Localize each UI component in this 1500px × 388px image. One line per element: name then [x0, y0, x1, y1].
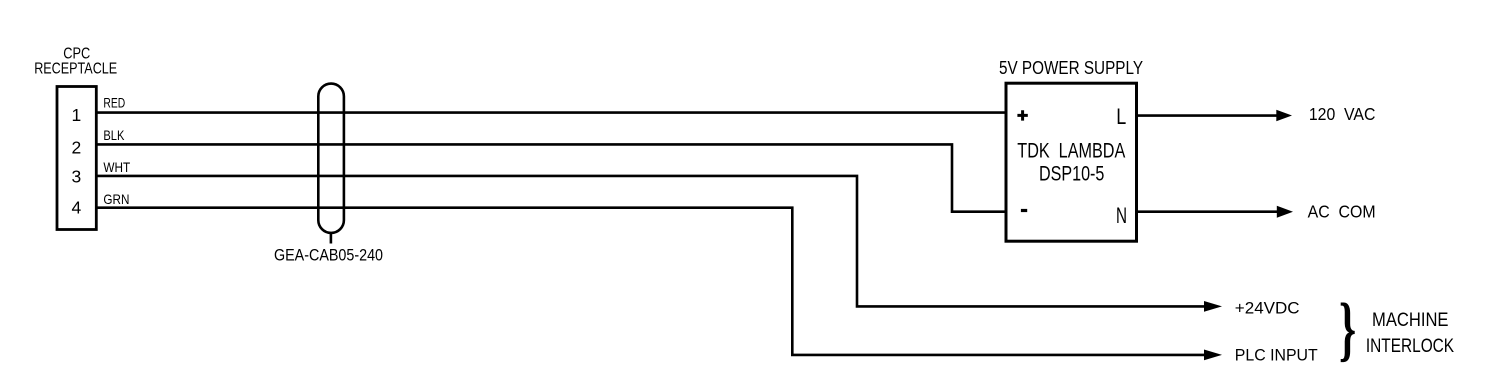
svg-text:RED: RED — [103, 96, 125, 111]
terminal N — [1116, 203, 1127, 228]
value DSP10-5 — [1039, 161, 1104, 185]
svg-text:DSP10-5: DSP10-5 — [1039, 161, 1104, 185]
pin 4 — [72, 198, 82, 218]
node PLC INPUT — [1235, 346, 1318, 365]
pin 1 — [72, 105, 82, 125]
svg-text:WHT: WHT — [103, 160, 130, 175]
svg-text:}: } — [1339, 288, 1356, 368]
label MACHINE — [1372, 310, 1449, 331]
node +24VDC — [1235, 298, 1300, 317]
svg-text:3: 3 — [72, 167, 82, 187]
label BLK — [103, 128, 124, 143]
svg-text:INTERLOCK: INTERLOCK — [1366, 336, 1454, 357]
label 5V POWER SUPPLY — [999, 58, 1143, 78]
svg-text:AC COM: AC COM — [1308, 201, 1376, 221]
arrowhead +24VDC — [1204, 301, 1222, 312]
wire WHT: pin 3 to +24VDC — [97, 176, 1206, 307]
label WHT — [103, 160, 130, 175]
svg-text:4: 4 — [72, 198, 82, 218]
svg-text:L: L — [1116, 104, 1126, 129]
connector J1 CPC receptacle body — [57, 87, 96, 230]
brace machine interlock — [1339, 288, 1356, 368]
svg-text:TDK LAMBDA: TDK LAMBDA — [1017, 139, 1125, 163]
label GEA-CAB05-240 — [274, 247, 383, 265]
wire RED: pin 1 to power supply + terminal — [97, 111, 1007, 114]
arrowhead PLC INPUT — [1204, 350, 1222, 361]
svg-text:5V POWER SUPPLY: 5V POWER SUPPLY — [999, 58, 1143, 78]
wire L to 120 VAC — [1137, 110, 1293, 121]
svg-text:GEA-CAB05-240: GEA-CAB05-240 — [274, 247, 383, 265]
label RECEPTACLE — [34, 61, 117, 78]
pin 3 — [72, 167, 82, 187]
wire GRN: pin 4 to PLC INPUT — [97, 208, 1206, 355]
label INTERLOCK — [1366, 336, 1454, 357]
svg-text:2: 2 — [72, 138, 82, 158]
node AC COM — [1308, 201, 1376, 221]
svg-text:N: N — [1116, 203, 1127, 228]
wire N to AC COM — [1137, 206, 1294, 218]
pin 2 — [72, 138, 82, 158]
svg-text:+24VDC: +24VDC — [1235, 298, 1300, 317]
wire BLK: pin 2 to power supply - terminal — [97, 144, 1007, 211]
terminal + — [1017, 110, 1027, 120]
svg-text:1: 1 — [72, 105, 82, 125]
svg-text:MACHINE: MACHINE — [1372, 310, 1449, 331]
svg-text:BLK: BLK — [103, 128, 124, 143]
label GRN — [103, 192, 129, 207]
svg-text:120 VAC: 120 VAC — [1309, 104, 1376, 124]
terminal L — [1116, 104, 1126, 129]
svg-text:RECEPTACLE: RECEPTACLE — [34, 61, 117, 78]
node 120 VAC — [1309, 104, 1376, 124]
label RED — [103, 96, 125, 111]
cable shield symbol W1 — [318, 84, 344, 244]
value TDK LAMBDA — [1017, 139, 1125, 163]
svg-text:GRN: GRN — [103, 192, 129, 207]
label CPC — [63, 46, 90, 63]
power supply U1 body — [1006, 83, 1137, 241]
terminal - — [1021, 209, 1027, 212]
svg-text:PLC INPUT: PLC INPUT — [1235, 346, 1318, 365]
